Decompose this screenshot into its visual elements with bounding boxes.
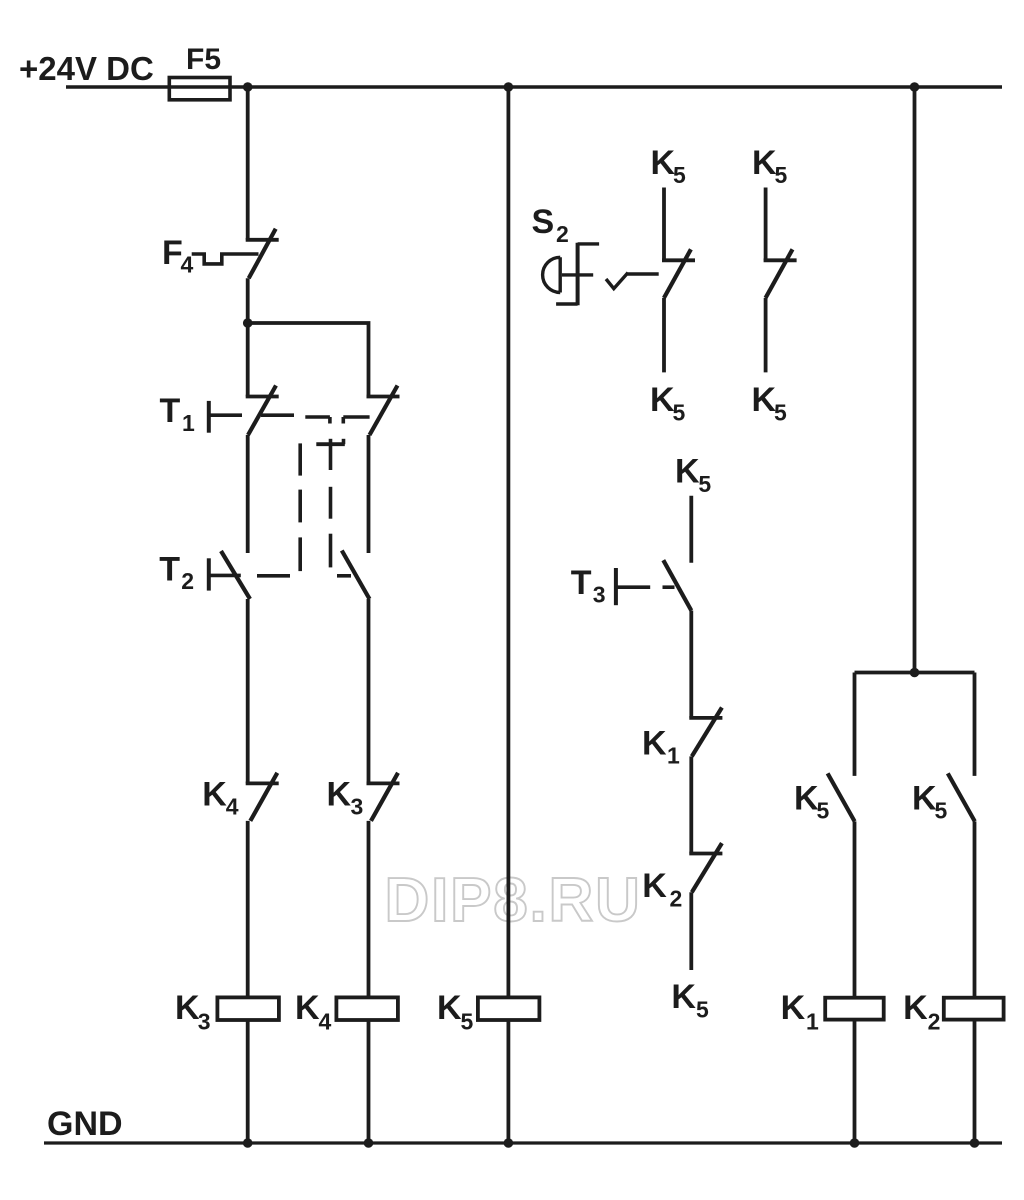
svg-text:K: K [327,776,352,814]
junction on rail at left branch [243,82,253,92]
T1 actuator link [211,413,295,417]
svg-text:K: K [675,453,700,491]
svg-text:3: 3 [593,582,606,608]
wire rail to K5 coil [506,87,510,997]
svg-text:5: 5 [775,162,788,188]
wire K5 contact to K1 coil [853,821,857,997]
label T1 [160,392,196,436]
junction on rail at right branch [910,82,920,92]
wire K5 label to T3 [689,496,693,563]
svg-text:5: 5 [698,471,711,497]
coil K2 [944,998,1004,1020]
T3 actuator bar [614,568,618,605]
label K1 contact [642,724,680,768]
wire K5 contact to K2 coil [973,821,977,997]
svg-text:K: K [671,978,696,1016]
contact T1 right (NC) [367,386,400,436]
wire T2 right to K3 contact [367,599,371,783]
svg-text:GND: GND [47,1105,123,1143]
wire node A to second branch top [248,323,369,397]
label K5 below chain [671,978,709,1022]
svg-text:1: 1 [182,410,195,436]
svg-text:4: 4 [181,252,194,278]
label K5 above T3 chain [675,453,711,497]
svg-text:5: 5 [696,996,709,1022]
label K5 below second contact [752,381,788,426]
wire K5 coil to GND [506,1020,510,1143]
svg-text:K: K [175,989,200,1027]
node split junction [910,668,920,678]
label K5 above second contact [752,144,788,188]
wire K3 coil to GND [246,1020,250,1143]
wire split to K5 contact right [973,673,977,776]
wire S2 contact to K5 label below [662,298,666,372]
label T2 [159,550,194,594]
junction on rail at K5 branch [504,82,514,92]
T3 actuator link [618,585,675,589]
dashed linkage vertical left [298,443,302,571]
wire to second K5 contact [764,188,768,261]
coil K3 [217,997,279,1020]
contact K4 (NC) [246,773,279,821]
svg-text:5: 5 [461,1008,474,1034]
svg-text:5: 5 [817,798,830,824]
svg-text:T: T [160,392,181,430]
label S2 [532,203,569,247]
svg-text:2: 2 [556,221,569,247]
svg-text:4: 4 [226,793,239,819]
wire T2 left to K4 contact [246,599,250,783]
wire top +24V rail [66,85,1002,88]
label T3 [571,564,606,608]
T2 actuator link [211,574,241,578]
svg-text:K: K [202,776,227,814]
T2 dashed mechanical link [257,574,351,578]
svg-text:2: 2 [928,1008,941,1034]
junction GND second branch [364,1138,374,1148]
junction GND K5 branch [504,1138,514,1148]
contact K5 second (NC) [764,249,797,298]
contact K3 (NC) [367,773,400,821]
wire node A to T1 left [246,323,250,397]
contact K1 (NC) [689,708,722,757]
T1 dashed mechanical link [305,417,369,424]
label K5 below S2 contact [650,381,686,426]
wire K3 contact to K4 coil [367,821,371,998]
svg-text:4: 4 [319,1008,332,1034]
junction GND left branch [243,1138,253,1148]
linkage bar [316,442,345,446]
svg-text:T: T [571,564,592,602]
contact S2 / K5 (NC) [662,249,695,298]
wire K2 contact down [689,892,693,970]
wire split to K5 contact left [853,673,857,776]
wire rail to F4 [246,87,250,240]
contact K5 left (NO) [828,773,855,821]
svg-text:K: K [752,144,777,182]
S2 stem [562,273,593,276]
label K5 mid [912,780,948,824]
label K1 coil [781,989,819,1034]
svg-text:1: 1 [806,1008,819,1034]
svg-text:K: K [903,989,928,1027]
svg-text:K: K [912,780,937,818]
svg-text:5: 5 [774,400,787,426]
wire GND rail [44,1141,1002,1144]
contact T2 right (NO) [342,551,370,600]
svg-text:S: S [532,203,555,241]
S2 link with check mark [606,273,659,289]
svg-text:F5: F5 [186,43,221,76]
svg-text:5: 5 [935,798,948,824]
svg-text:5: 5 [673,162,686,188]
svg-text:K: K [752,381,777,419]
label F4 [162,234,194,278]
junction GND K1 branch [850,1138,860,1148]
wire K2 coil to GND [973,1020,977,1143]
svg-text:K: K [650,381,675,419]
svg-text:K: K [642,724,667,762]
label K4 coil [295,989,332,1034]
svg-text:5: 5 [673,400,686,426]
S2 bar top tick [578,242,600,245]
wire K4 contact to K3 coil [246,821,250,998]
contact F4 (NC thermal overload) [192,229,279,278]
wire split horizontal [855,671,975,675]
wire below second K5 contact [764,298,768,372]
svg-text:K: K [794,780,819,818]
fuse F5 [169,43,230,100]
label K5 above S2 contact [651,144,687,188]
svg-text:3: 3 [351,793,364,819]
T1 actuator bar [207,401,211,433]
T2 actuator bar [207,558,211,590]
label K5 coil [437,989,474,1034]
svg-text:3: 3 [198,1008,211,1034]
label K2 contact [642,867,682,911]
svg-text:K: K [437,989,462,1027]
svg-text:K: K [781,989,806,1027]
wire rail to right split node [913,87,917,673]
coil K1 [825,998,884,1020]
svg-text:+24V DC: +24V DC [19,50,154,87]
node A junction [243,318,253,328]
dashed linkage vertical right [329,439,333,568]
contact K2 (NC) [689,843,722,892]
coil K5 [478,997,540,1020]
svg-text:K: K [642,867,667,905]
svg-text:1: 1 [667,743,680,769]
wire K1 to K2 contact [689,756,693,853]
svg-text:2: 2 [181,568,194,594]
contact T1 left (NC) [246,386,279,436]
wire F4 to node A [246,278,250,324]
contact T2 left (NO) [221,551,250,599]
wire T1 right to T2 right [367,435,371,553]
label K2 coil [903,989,940,1034]
wire K1 coil to GND [853,1020,857,1143]
label K4 [202,776,238,820]
label K3 [327,776,364,820]
linkage stub [342,439,346,444]
coil K4 [336,997,398,1020]
svg-text:K: K [295,989,320,1027]
wire T3 to K1 contact [689,611,693,718]
junction GND K2 branch [970,1138,980,1148]
wire T1 left to T2 left [246,435,250,553]
svg-text:K: K [651,144,676,182]
pushbutton S2 head [543,257,561,292]
svg-text:DIP8.RU: DIP8.RU [385,866,642,935]
wire K4 coil to GND [367,1020,371,1143]
S2 actuator bar [576,243,580,306]
svg-text:2: 2 [670,885,683,911]
contact T3 (NO) [663,560,691,610]
label K5 left [794,780,830,824]
label K3 coil [175,989,211,1034]
svg-text:T: T [159,550,180,588]
contact K5 right (NO) [948,773,975,821]
S2 bar bottom tick [556,302,578,305]
wire K5 label to S2 contact [662,188,666,261]
